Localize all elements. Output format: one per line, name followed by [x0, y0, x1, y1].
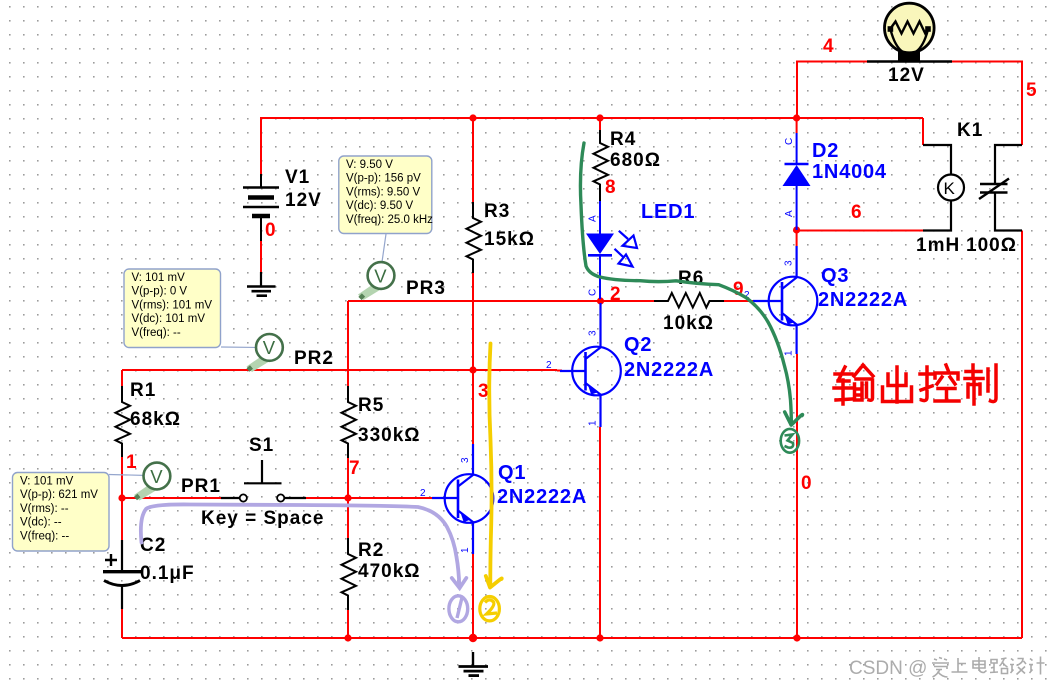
node junction dot bus Q3 [793, 634, 800, 641]
annotation purple circled 1 [449, 596, 468, 622]
svg-text:2: 2 [420, 488, 426, 499]
wire top +12V bus [261, 117, 923, 119]
wire node 1 horizontal [122, 497, 221, 499]
node junction dot top bus R3 [469, 114, 476, 121]
wire 5 right vertical to ground bus [1021, 231, 1023, 639]
wire Q3 emitter [796, 354, 798, 638]
wire V1 top riser [260, 117, 262, 174]
svg-text:0: 0 [265, 220, 276, 241]
wire relay coil top [922, 118, 924, 145]
svg-text:1mH: 1mH [916, 235, 960, 256]
relay K1 coil [923, 145, 964, 231]
svg-text:V: 9.50 V: V: 9.50 V [346, 159, 393, 171]
wire Q2 base stub [557, 370, 562, 372]
wire V1 bottom [260, 241, 262, 272]
svg-text:A: A [784, 210, 795, 217]
svg-text:V(dc): 9.50 V: V(dc): 9.50 V [346, 200, 413, 212]
node junction dot bus R2 [344, 634, 351, 641]
svg-text:15kΩ: 15kΩ [484, 229, 535, 250]
resistor R4 [594, 130, 609, 201]
wire Q3 collector stub [796, 231, 798, 247]
node junction dot bus Q1 [469, 634, 477, 642]
relay K1 contact [979, 145, 1022, 231]
svg-text:V: 101 mV: V: 101 mV [132, 272, 186, 284]
wire R4 top stub [599, 118, 601, 133]
svg-text:Key = Space: Key = Space [201, 508, 325, 529]
watermark chinese [932, 657, 1045, 678]
annotation purple curve [141, 504, 459, 586]
svg-text:K1: K1 [957, 120, 983, 141]
svg-text:V(freq): --: V(freq): -- [20, 530, 69, 542]
annotation red text 输出控制 [834, 365, 996, 404]
svg-text:470kΩ: 470kΩ [358, 561, 421, 582]
svg-text:100Ω: 100Ω [966, 235, 1017, 256]
svg-text:V(freq): 25.0 kHz: V(freq): 25.0 kHz [346, 214, 433, 226]
annotation purple arrowhead [452, 578, 467, 588]
battery V1 [243, 174, 279, 241]
svg-text:2N2222A: 2N2222A [624, 359, 714, 381]
svg-text:A: A [588, 215, 599, 222]
node junction dot node2 LED [597, 297, 604, 304]
svg-text:C: C [784, 138, 795, 145]
tooltip box PR2 [124, 269, 221, 348]
wire node 2 run [348, 300, 654, 302]
annotation green arrowhead [785, 412, 803, 425]
node junction dot top bus R4 [596, 114, 603, 121]
svg-text:V: V [374, 265, 387, 286]
svg-text:V: 101 mV: V: 101 mV [20, 476, 74, 488]
probe PR3 [358, 262, 394, 300]
svg-text:V(rms): 9.50 V: V(rms): 9.50 V [346, 186, 420, 198]
svg-text:R5: R5 [358, 395, 384, 416]
capacitor C2 [103, 540, 141, 609]
svg-text:3: 3 [588, 330, 599, 336]
svg-text:V: V [150, 466, 163, 487]
transistor Q1 2N2222A [432, 444, 493, 554]
wire D2 top stub [796, 118, 798, 133]
svg-text:680Ω: 680Ω [610, 150, 661, 171]
node junction dot bus Q2 [596, 634, 603, 641]
switch S1 [221, 460, 306, 502]
svg-text:V(dc): --: V(dc): -- [20, 517, 62, 529]
wire node 9 R6 to Q3 base [724, 300, 753, 302]
svg-text:R2: R2 [358, 540, 384, 561]
svg-text:S1: S1 [249, 435, 274, 456]
wire lamp left riser [797, 62, 867, 119]
wire R5 bottom [347, 458, 349, 498]
svg-text:Q1: Q1 [498, 462, 526, 484]
lamp X1 12V [867, 3, 952, 61]
svg-text:V(rms): 101 mV: V(rms): 101 mV [132, 299, 213, 311]
svg-text:CSDN @: CSDN @ [849, 658, 927, 679]
LED1 emission arrow 1 [619, 231, 637, 248]
svg-text:V(rms): --: V(rms): -- [20, 503, 69, 515]
tooltip connector PR2 [221, 346, 260, 349]
tooltip box PR3 [339, 156, 433, 234]
svg-text:12V: 12V [285, 190, 322, 211]
svg-text:7: 7 [349, 458, 360, 479]
LED1 [586, 201, 614, 299]
wire C2 bottom to bus [121, 609, 123, 638]
wire R3 bottom to node3 [472, 273, 474, 370]
svg-text:3: 3 [784, 260, 795, 266]
annotation green curve [580, 143, 791, 421]
svg-text:Q3: Q3 [821, 265, 849, 287]
svg-text:D2: D2 [812, 140, 839, 162]
svg-text:V(dc): 101 mV: V(dc): 101 mV [132, 313, 206, 325]
svg-text:330kΩ: 330kΩ [358, 425, 421, 446]
svg-text:2N2222A: 2N2222A [818, 289, 908, 311]
node junction dot top bus D2 [793, 114, 800, 121]
node junction dot node1 left [118, 494, 125, 501]
annotation yellow arrowhead [486, 576, 502, 588]
transistor Q2 2N2222A [560, 303, 621, 427]
svg-text:C: C [588, 289, 599, 296]
wire R2 top [347, 498, 349, 538]
resistor R3 [467, 202, 482, 273]
LED1 emission arrow 2 [615, 249, 633, 267]
wire node 7 switch to Q1 base [306, 497, 432, 499]
wire Q1 collector [472, 370, 474, 444]
svg-text:12V: 12V [888, 65, 925, 86]
ground under V1 [247, 272, 276, 296]
svg-text:V(p-p): 621 mV: V(p-p): 621 mV [20, 489, 98, 501]
wire R5 top stub [347, 370, 349, 386]
annotation yellow line [489, 344, 491, 586]
wire R1 bottom [121, 457, 123, 498]
svg-text:1: 1 [784, 350, 795, 356]
node junction dot node6 D2 anode [793, 226, 800, 233]
svg-text:0.1μF: 0.1μF [140, 563, 195, 584]
svg-text:V(p-p): 156 pV: V(p-p): 156 pV [346, 173, 421, 185]
wire node 2 horizontal [347, 301, 349, 370]
svg-text:6: 6 [851, 202, 862, 223]
probe PR2 [247, 334, 283, 372]
resistor R5 [342, 386, 357, 458]
wire Q2 emitter [599, 427, 601, 638]
svg-text:V(p-p): 0 V: V(p-p): 0 V [132, 286, 188, 298]
tooltip connector PR1 [109, 475, 148, 476]
wire node 6 coil bottom to D2 anode [797, 230, 923, 232]
svg-text:LED1: LED1 [641, 201, 695, 223]
annotation green circled 3 [781, 429, 799, 453]
transistor Q3 2N2222A [753, 246, 817, 354]
wire R3 top [472, 118, 474, 202]
svg-text:0: 0 [801, 473, 812, 494]
svg-text:1: 1 [126, 452, 137, 473]
svg-text:2N2222A: 2N2222A [497, 486, 587, 508]
svg-text:K: K [944, 179, 956, 198]
svg-text:R4: R4 [610, 129, 636, 150]
svg-text:4: 4 [823, 36, 834, 57]
ground center bottom [459, 652, 489, 676]
svg-text:1: 1 [460, 547, 471, 553]
diode D2 1N4004 [783, 133, 811, 230]
svg-text:Q2: Q2 [624, 334, 652, 356]
svg-text:3: 3 [460, 457, 471, 463]
wire ground bus bottom [122, 637, 1022, 639]
svg-text:R3: R3 [484, 201, 510, 222]
tooltip box PR1 [13, 473, 110, 552]
wire 4 lamp right to node 5 [952, 62, 1022, 146]
wire R1 top [121, 370, 123, 386]
svg-text:68kΩ: 68kΩ [130, 409, 181, 430]
wire R2 bottom [347, 610, 349, 638]
svg-text:1: 1 [588, 420, 599, 426]
wire C2 top [121, 498, 123, 540]
resistor R2 [342, 538, 357, 610]
svg-text:3: 3 [478, 381, 489, 402]
annotation yellow circled 2 [480, 597, 500, 621]
probe PR1 [134, 463, 170, 501]
resistor R6 horizontal [654, 293, 724, 308]
svg-text:2: 2 [546, 360, 552, 371]
svg-text:10kΩ: 10kΩ [663, 313, 714, 334]
svg-text:V(freq): --: V(freq): -- [132, 327, 181, 339]
svg-text:R1: R1 [130, 380, 156, 401]
svg-text:8: 8 [605, 177, 616, 198]
resistor R1 [116, 386, 131, 457]
svg-text:PR2: PR2 [294, 348, 334, 369]
tooltip connector PR3 [382, 234, 386, 262]
node junction dot node7 [344, 494, 351, 501]
wire Q1 emitter [472, 554, 474, 638]
svg-text:PR3: PR3 [406, 278, 446, 299]
svg-text:PR1: PR1 [181, 476, 221, 497]
svg-text:V1: V1 [285, 167, 310, 188]
svg-text:C2: C2 [140, 535, 166, 556]
svg-text:V: V [263, 337, 276, 358]
svg-text:R6: R6 [678, 268, 704, 289]
svg-text:5: 5 [1026, 80, 1037, 101]
svg-text:1N4004: 1N4004 [812, 161, 887, 183]
wire node 3 horizontal [122, 369, 557, 371]
svg-text:2: 2 [610, 284, 621, 305]
node junction dot node3 R3 [469, 366, 476, 373]
